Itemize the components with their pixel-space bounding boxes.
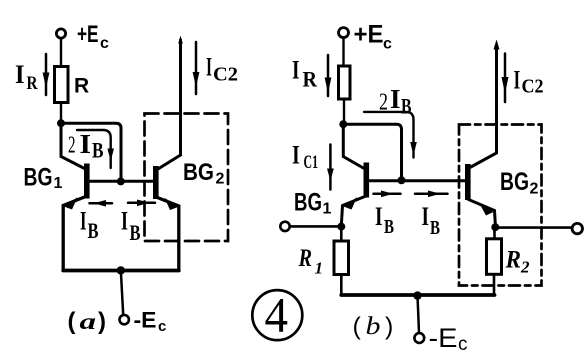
label IR (b)	[292, 56, 318, 92]
wire R1 to rail (b)	[340, 275, 343, 296]
svg-text:c: c	[383, 36, 392, 53]
svg-text:C1: C1	[304, 152, 319, 173]
svg-text:b: b	[366, 313, 381, 340]
label BG2 (a)	[183, 159, 225, 188]
node base junction (a)	[117, 177, 125, 185]
node emitter BG2 (b)	[491, 223, 499, 231]
collector top arrowhead (b)	[494, 40, 500, 50]
current arrow IR (a)	[43, 54, 50, 95]
svg-text:BG: BG	[183, 159, 214, 186]
node base junction (b)	[398, 176, 406, 184]
wire node to bases (a)	[61, 123, 121, 180]
wire collector BG2 up (b)	[471, 46, 497, 167]
dashed box BG2 (b)	[459, 125, 542, 286]
terminal -Ec (a)	[120, 315, 129, 324]
svg-text:R: R	[505, 247, 521, 274]
current arrow IC1 (b)	[327, 145, 334, 190]
resistor R (b)	[339, 66, 351, 99]
wire base BG1-BG2 (a)	[90, 180, 154, 183]
terminal -Ec (b)	[414, 333, 424, 343]
terminal left (b)	[280, 222, 289, 231]
label 2IB (b)	[379, 84, 412, 119]
node below R (b)	[339, 120, 347, 128]
label -Ec (b)	[429, 323, 468, 355]
svg-text:I: I	[375, 202, 383, 231]
node emitter BG1 (b)	[337, 223, 345, 231]
svg-text:R: R	[303, 67, 319, 92]
svg-text:+E: +E	[77, 21, 99, 48]
label IR (a)	[15, 60, 38, 94]
svg-text:2: 2	[530, 181, 539, 198]
transistor BG2 base bar (a)	[153, 166, 159, 199]
label +Ec (a)	[77, 21, 109, 52]
wire +Ec to R (b)	[342, 38, 344, 66]
current arrow IC2 (a)	[193, 42, 200, 94]
node bottom rail (a)	[117, 266, 125, 274]
svg-text:I: I	[15, 60, 25, 89]
label IB left (b)	[375, 202, 394, 238]
wire R to node (b)	[343, 99, 345, 121]
svg-text:R: R	[27, 73, 38, 94]
svg-text:2: 2	[68, 133, 76, 159]
wire R to node (a)	[60, 103, 62, 122]
svg-text:I: I	[422, 202, 430, 231]
svg-text:I: I	[80, 207, 87, 236]
label IC1 (b)	[292, 141, 318, 174]
svg-text:2: 2	[216, 171, 225, 188]
svg-text:B: B	[430, 217, 440, 239]
svg-text:): )	[98, 308, 106, 335]
svg-text:): )	[385, 313, 393, 341]
transistor BG1 base bar (a)	[84, 164, 90, 199]
svg-text:B: B	[401, 94, 412, 119]
svg-text:c: c	[158, 318, 166, 335]
label IB left (a)	[80, 207, 99, 244]
label BG1 (b)	[294, 189, 332, 218]
collector top arrowhead (a)	[178, 36, 183, 44]
current arrow 2IB (a)	[77, 130, 114, 168]
current arrow IB right (b)	[415, 191, 448, 198]
label -Ec (a)	[134, 308, 167, 336]
label BG1 (a)	[24, 164, 63, 193]
svg-text:+E: +E	[354, 21, 384, 49]
resistor R2 (b)	[487, 239, 502, 274]
svg-text:B: B	[384, 216, 394, 238]
emitter BG2 with arrow (a)	[156, 197, 179, 270]
current arrow IR (b)	[325, 55, 332, 96]
svg-text:R: R	[298, 245, 312, 272]
current arrow IB left (a)	[90, 200, 113, 207]
wire to -Ec (a)	[121, 270, 123, 314]
svg-text:I: I	[390, 84, 401, 114]
svg-text:1: 1	[54, 175, 63, 192]
terminal +Ec (a)	[56, 29, 65, 38]
bottom rail (a)	[63, 269, 179, 273]
svg-text:B: B	[88, 218, 99, 243]
transistor BG1 base bar (b)	[364, 163, 370, 198]
resistor R (a)	[55, 67, 69, 103]
label (a)	[68, 308, 107, 335]
svg-text:BG: BG	[24, 164, 53, 192]
wire right terminal (b)	[495, 226, 572, 229]
current arrow IB right (a)	[128, 200, 155, 207]
label 2IB (a)	[68, 129, 104, 163]
label R2 (b)	[505, 247, 530, 277]
svg-text:BG: BG	[294, 189, 322, 217]
wire left terminal (b)	[290, 225, 338, 228]
svg-text:I: I	[121, 207, 128, 236]
svg-text:1: 1	[315, 259, 324, 278]
wire base BG1-BG2 (b)	[369, 179, 466, 182]
svg-text:I: I	[292, 56, 300, 85]
svg-text:I: I	[80, 129, 92, 159]
wire collector BG1 (a)	[61, 123, 85, 168]
svg-text:a: a	[80, 309, 97, 334]
svg-text:2: 2	[520, 258, 530, 277]
svg-text:-E: -E	[134, 308, 157, 333]
svg-text:C2: C2	[522, 76, 544, 98]
emitter BG2 with arrow (b)	[469, 200, 496, 225]
svg-text:I: I	[292, 141, 300, 170]
node below R (a)	[57, 119, 65, 127]
current arrow IB left (b)	[374, 191, 401, 198]
bottom rail (b)	[341, 293, 494, 297]
svg-text:I: I	[514, 66, 521, 95]
label IB right (a)	[121, 207, 141, 246]
svg-text:I: I	[206, 53, 212, 82]
dashed box BG2 (a)	[145, 114, 229, 242]
svg-text:-E: -E	[429, 323, 458, 353]
emitter BG1 with arrow (b)	[341, 196, 366, 226]
svg-text:c: c	[458, 334, 468, 355]
label +Ec (b)	[354, 21, 393, 53]
svg-text:1: 1	[323, 201, 332, 218]
wire collector BG1 (b)	[343, 124, 365, 169]
wire R2 to rail (b)	[493, 274, 496, 295]
label IC2 (b)	[514, 66, 544, 98]
wire to -Ec (b)	[418, 296, 420, 333]
terminal right (b)	[572, 223, 582, 233]
label BG2 (b)	[500, 168, 539, 198]
transistor BG2 base bar (b)	[465, 164, 471, 200]
label IC2 (a)	[206, 53, 238, 86]
label R (a)	[74, 75, 89, 98]
current arrow IC2 (b)	[502, 54, 509, 103]
svg-text:4: 4	[265, 287, 289, 343]
terminal +Ec (b)	[339, 28, 349, 38]
emitter BG1 with arrow (a)	[63, 196, 87, 270]
wire emitter to R1 (b)	[340, 227, 343, 241]
svg-text:BG: BG	[500, 168, 529, 196]
label (b)	[353, 313, 394, 341]
wire node to bases (b)	[343, 124, 401, 179]
svg-text:B: B	[130, 220, 141, 245]
figure number circle 4	[252, 287, 302, 343]
svg-text:2: 2	[379, 90, 388, 116]
node bottom rail (b)	[413, 291, 421, 299]
wire +Ec to R (a)	[60, 38, 62, 66]
label IB right (b)	[422, 202, 441, 239]
svg-text:B: B	[92, 138, 104, 163]
svg-text:(: (	[353, 313, 362, 341]
current arrow 2IB (b)	[364, 112, 417, 158]
resistor R1 (b)	[334, 241, 349, 275]
svg-text:C2: C2	[213, 64, 238, 86]
wire emitter to R2 (b)	[493, 228, 496, 239]
svg-text:R: R	[74, 75, 89, 98]
wire collector BG2 up (a)	[159, 40, 181, 169]
svg-text:c: c	[100, 35, 109, 52]
label R1 (b)	[298, 245, 323, 278]
svg-text:(: (	[68, 308, 76, 335]
